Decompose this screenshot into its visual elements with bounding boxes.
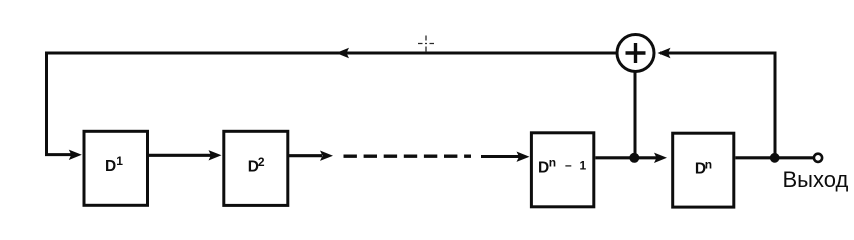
wire D1 to D2 — [149, 154, 211, 157]
wire top right: corner to summing node — [660, 52, 777, 55]
register block Dn — [673, 133, 734, 207]
svg-text:2: 2 — [258, 155, 265, 169]
registration crosshair mark — [418, 36, 434, 53]
svg-text:–: – — [565, 158, 572, 172]
output terminal open circle — [814, 154, 822, 162]
arrowhead into summing node (pointing left) — [658, 48, 671, 58]
junction node dot at output — [770, 153, 780, 163]
arrowhead into Dn — [654, 153, 667, 163]
arrowhead into D2 — [209, 150, 222, 160]
svg-text:1: 1 — [580, 159, 587, 173]
svg-text:1: 1 — [116, 154, 123, 168]
arrowhead into Dn-1 — [517, 152, 530, 162]
wire vertical from output node up to top — [774, 53, 777, 158]
svg-text:n: n — [549, 155, 556, 169]
summing node circle with plus — [617, 35, 654, 72]
arrowhead after D2 — [320, 151, 333, 161]
wire Dn to output terminal — [735, 156, 813, 159]
register block Dn-1 — [531, 133, 593, 207]
wire into Dn-1 (solid) — [481, 155, 521, 158]
svg-text:n: n — [705, 158, 712, 172]
junction node dot between Dn-1 and Dn — [629, 153, 639, 163]
wire D2 out (solid) — [289, 154, 322, 157]
wire feedback top: summing node to left edge, down, into D1 — [47, 53, 618, 155]
arrowhead into D1 — [69, 150, 82, 160]
wire from summing node down to junction — [634, 72, 637, 155]
svg-text:Выход: Выход — [783, 167, 849, 192]
svg-text:D: D — [538, 160, 549, 177]
wire dashed segment — [344, 154, 472, 157]
register block D1 — [84, 131, 148, 205]
arrowhead on top feedback wire (pointing left) — [336, 48, 349, 58]
wire Dn-1 to Dn — [595, 156, 658, 159]
svg-text:D: D — [105, 158, 116, 175]
register block D2 — [224, 131, 288, 205]
